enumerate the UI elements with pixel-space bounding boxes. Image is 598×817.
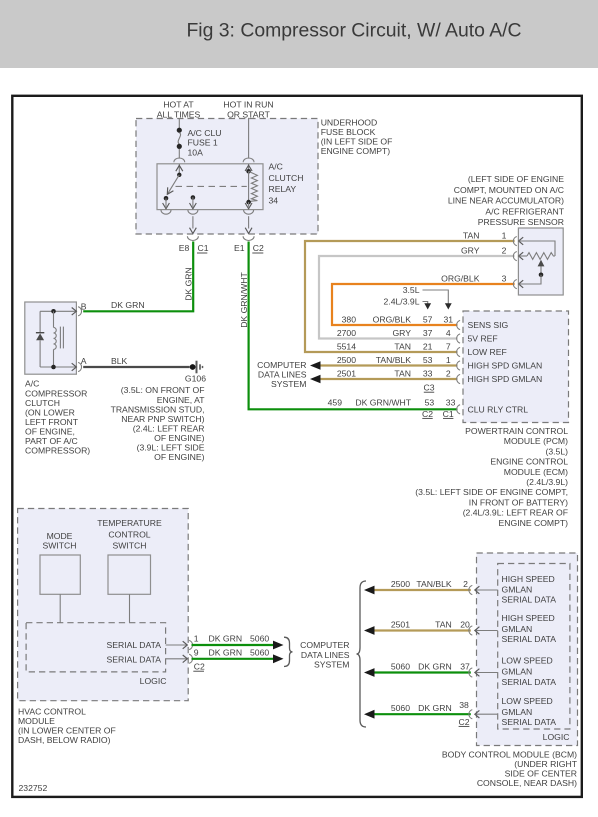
svg-text:DK GRN: DK GRN	[209, 647, 243, 657]
svg-text:2.4L/3.9L: 2.4L/3.9L	[384, 297, 420, 307]
svg-text:5060: 5060	[250, 647, 269, 657]
svg-text:SERIAL DATA: SERIAL DATA	[107, 655, 162, 665]
BCM pin 20 connector	[469, 626, 498, 635]
svg-text:LEFT FRONT: LEFT FRONT	[25, 417, 79, 427]
mode switch label	[42, 531, 76, 551]
BCM low speed gmlan label 1	[502, 656, 557, 688]
svg-text:3.5L: 3.5L	[403, 285, 420, 295]
svg-text:Fig 3: Compressor Circuit, W/: Fig 3: Compressor Circuit, W/ Auto A/C	[186, 20, 521, 42]
wire TAN 2501 to PCM HIGH SPD GMLAN	[310, 369, 458, 384]
mode switch box	[40, 555, 80, 594]
PCM pin 31 connector SENS SIG	[457, 320, 509, 330]
svg-text:(2.4L: LEFT REAR: (2.4L: LEFT REAR	[133, 424, 205, 434]
fuse F1 value label	[188, 128, 222, 157]
svg-text:A/C: A/C	[25, 379, 39, 389]
connector C3 label	[423, 383, 434, 393]
fuse block label	[321, 118, 393, 157]
svg-text:HIGH SPEED: HIGH SPEED	[502, 613, 555, 623]
svg-text:5060: 5060	[391, 661, 410, 671]
wire ORG/BLK sensor pin3 to PCM SENS SIG	[332, 284, 515, 325]
svg-text:FUSE 1: FUSE 1	[188, 138, 218, 148]
PCM pin 33 connector CLU RLY CTRL	[457, 404, 529, 414]
svg-text:DK GRN/WHT: DK GRN/WHT	[239, 271, 249, 327]
PCM module box	[463, 311, 569, 423]
svg-text:9: 9	[194, 647, 199, 657]
svg-text:IN FRONT OF BATTERY): IN FRONT OF BATTERY)	[469, 497, 568, 507]
svg-text:2501: 2501	[391, 619, 410, 629]
svg-text:HIGH SPEED: HIGH SPEED	[502, 574, 555, 584]
connector C2 C1 labels	[422, 409, 454, 419]
svg-text:PRESSURE SENSOR: PRESSURE SENSOR	[478, 217, 564, 227]
svg-text:ORG/BLK: ORG/BLK	[373, 315, 412, 325]
wire TAN/BLK 2500 to BCM pin 2	[364, 579, 471, 595]
svg-text:21: 21	[423, 342, 433, 352]
HVAC pin 9 connector	[166, 647, 199, 663]
HVAC caption	[18, 706, 116, 745]
svg-text:SWITCH: SWITCH	[42, 541, 76, 551]
svg-text:1: 1	[446, 355, 451, 365]
svg-text:5060: 5060	[250, 634, 269, 644]
svg-text:GMLAN: GMLAN	[502, 667, 533, 677]
wire row 2700 GRY labels	[337, 328, 451, 338]
svg-text:SERIAL DATA: SERIAL DATA	[502, 595, 557, 605]
svg-text:B: B	[81, 302, 87, 312]
svg-text:(LEFT SIDE OF ENGINE: (LEFT SIDE OF ENGINE	[468, 174, 564, 184]
svg-text:TAN: TAN	[435, 619, 452, 629]
svg-text:TAN: TAN	[463, 230, 480, 240]
PCM pin 4 connector 5V REF	[457, 334, 498, 344]
svg-text:SWITCH: SWITCH	[112, 541, 146, 551]
svg-text:ENGINE COMPT): ENGINE COMPT)	[499, 518, 569, 528]
wire DK GRN 5060 to BCM pin 37	[364, 661, 471, 677]
wire row 380 ORG/BLK labels	[342, 315, 454, 325]
relay K1 switch blade	[167, 175, 179, 195]
svg-text:53: 53	[423, 355, 433, 365]
BCM pin 37 connector	[469, 668, 498, 677]
svg-text:DK GRN/WHT: DK GRN/WHT	[355, 397, 411, 407]
svg-text:CONSOLE, NEAR DASH): CONSOLE, NEAR DASH)	[477, 778, 577, 788]
svg-text:CLUTCH: CLUTCH	[269, 173, 304, 183]
svg-text:A/C REFRIGERANT: A/C REFRIGERANT	[485, 206, 564, 216]
svg-text:HIGH SPD GMLAN: HIGH SPD GMLAN	[468, 374, 543, 384]
clutch internal top bus	[40, 309, 76, 314]
sensor pin 2 connector	[461, 245, 523, 260]
svg-text:SYSTEM: SYSTEM	[314, 659, 349, 669]
svg-text:HVAC CONTROL: HVAC CONTROL	[18, 706, 86, 716]
svg-text:DASH, BELOW RADIO): DASH, BELOW RADIO)	[18, 735, 111, 745]
svg-text:37: 37	[460, 661, 470, 671]
sensor internal supply line	[519, 241, 555, 256]
svg-text:C2: C2	[422, 409, 433, 419]
svg-text:POWERTRAIN CONTROL: POWERTRAIN CONTROL	[465, 426, 568, 436]
sensor pin 1 connector	[463, 230, 523, 245]
svg-text:SIDE OF CENTER: SIDE OF CENTER	[505, 769, 577, 779]
wire mode switch to logic	[59, 594, 61, 622]
wire TAN 2501 to BCM pin 20	[364, 619, 471, 635]
svg-text:34: 34	[269, 196, 279, 206]
wire hot in run feed	[248, 118, 250, 159]
svg-text:GMLAN: GMLAN	[502, 624, 533, 634]
svg-text:E8: E8	[179, 243, 190, 253]
relay K1 coil ground-side terminal	[244, 202, 254, 214]
sensor wiper arrow	[538, 260, 545, 275]
svg-text:TEMPERATURE: TEMPERATURE	[97, 518, 162, 528]
svg-text:CONTROL: CONTROL	[108, 530, 150, 540]
svg-text:COMPRESSOR: COMPRESSOR	[25, 388, 87, 398]
svg-text:(IN LOWER CENTER OF: (IN LOWER CENTER OF	[18, 725, 116, 735]
svg-text:LOGIC: LOGIC	[543, 732, 570, 742]
svg-text:GRY: GRY	[392, 328, 411, 338]
svg-text:(IN LEFT SIDE OF: (IN LEFT SIDE OF	[321, 137, 393, 147]
sensor pin 3 connector	[441, 273, 523, 288]
svg-text:COMPUTER: COMPUTER	[257, 360, 306, 370]
relay K1 A/C clutch relay box	[157, 164, 263, 210]
pressure sensor caption	[448, 174, 565, 227]
wire GRY sensor pin2 to PCM 5V REF	[319, 256, 515, 339]
clutch caption	[25, 379, 90, 456]
svg-text:HIGH SPD GMLAN: HIGH SPD GMLAN	[468, 361, 543, 371]
svg-text:380: 380	[342, 315, 357, 325]
A/C refrigerant pressure sensor box	[518, 228, 563, 295]
relay K1 normally-open contact	[161, 196, 171, 214]
BCM pin 2 connector	[469, 585, 498, 594]
svg-text:57: 57	[423, 315, 433, 325]
svg-text:COMPRESSOR): COMPRESSOR)	[25, 446, 90, 456]
svg-text:TAN: TAN	[394, 369, 411, 379]
svg-text:7: 7	[446, 342, 451, 352]
BCM module box	[477, 553, 578, 746]
svg-text:ALL TIMES: ALL TIMES	[157, 110, 201, 120]
svg-text:53: 53	[425, 397, 435, 407]
svg-text:MODULE (PCM): MODULE (PCM)	[504, 436, 568, 446]
svg-text:RELAY: RELAY	[269, 184, 297, 194]
svg-text:MODE: MODE	[47, 531, 73, 541]
svg-text:2700: 2700	[337, 328, 356, 338]
svg-text:LOW REF: LOW REF	[468, 347, 507, 357]
relay K1 coil	[245, 164, 257, 204]
PCM pin 2 connector HIGH SPD GMLAN	[457, 374, 543, 384]
svg-text:2500: 2500	[337, 355, 356, 365]
svg-text:38: 38	[459, 700, 469, 710]
wire DK GRN relay to clutch pin B	[83, 242, 193, 312]
svg-text:33: 33	[423, 369, 433, 379]
label 3.5L pin pointer	[403, 285, 452, 310]
svg-text:37: 37	[423, 328, 433, 338]
svg-text:SENS SIG: SENS SIG	[468, 320, 509, 330]
svg-text:(2.4L/3.9L): (2.4L/3.9L)	[526, 477, 568, 487]
relay K1 connector arch pin 85 top	[243, 158, 254, 162]
svg-text:DK GRN: DK GRN	[418, 703, 452, 713]
svg-text:COMPUTER: COMPUTER	[300, 640, 349, 650]
diode D1 clutch suppression	[36, 311, 44, 367]
svg-text:TRANSMISSION STUD,: TRANSMISSION STUD,	[111, 404, 205, 414]
relay K1 label 34	[269, 162, 304, 206]
svg-text:(ON LOWER: (ON LOWER	[25, 407, 75, 417]
svg-text:NEAR PNP SWITCH): NEAR PNP SWITCH)	[121, 414, 204, 424]
connector C2 label BCM	[458, 717, 469, 727]
svg-text:5V REF: 5V REF	[468, 334, 498, 344]
PCM pin 1 connector HIGH SPD GMLAN	[457, 361, 543, 371]
temperature control switch box	[108, 555, 151, 594]
svg-text:2501: 2501	[337, 369, 356, 379]
svg-text:LOGIC: LOGIC	[140, 676, 167, 686]
ground G106 caption	[111, 385, 206, 462]
svg-text:CLUTCH: CLUTCH	[25, 398, 60, 408]
svg-text:459: 459	[328, 397, 343, 407]
resistor R1 sensor element	[527, 253, 555, 260]
svg-text:(2.4L/3.9L: LEFT REAR OF: (2.4L/3.9L: LEFT REAR OF	[463, 508, 568, 518]
wire DK GRN/WHT relay to PCM CLU RLY CTRL	[249, 242, 458, 410]
svg-text:5514: 5514	[337, 342, 356, 352]
brace left of BCM wires	[357, 581, 367, 727]
HVAC control module box	[18, 509, 189, 701]
svg-text:COMPT, MOUNTED ON A/C: COMPT, MOUNTED ON A/C	[454, 185, 564, 195]
BCM pin 38 connector	[469, 710, 498, 719]
connector C2 label HVAC	[193, 662, 205, 672]
svg-text:DATA LINES: DATA LINES	[258, 370, 307, 380]
svg-text:2: 2	[446, 369, 451, 379]
computer data lines system label upper	[257, 360, 307, 389]
wire row 5514 TAN labels	[337, 342, 451, 352]
wire relay output to connector E8	[187, 216, 198, 240]
svg-text:MODULE: MODULE	[18, 716, 55, 726]
relay K1 coil link dashed	[176, 185, 247, 187]
svg-text:E1: E1	[234, 243, 245, 253]
svg-text:4: 4	[446, 328, 451, 338]
fuse F1 A/C CLU FUSE 1 10A	[177, 119, 182, 159]
relay K1 connector arch pin 86 top	[174, 158, 185, 162]
svg-text:31: 31	[444, 315, 454, 325]
ground G106	[185, 361, 206, 384]
svg-text:DK GRN: DK GRN	[418, 661, 452, 671]
svg-text:SERIAL DATA: SERIAL DATA	[502, 717, 557, 727]
svg-text:10A: 10A	[188, 147, 204, 157]
node sensor wiper junction	[539, 273, 544, 278]
svg-text:LOW SPEED: LOW SPEED	[502, 656, 553, 666]
svg-text:33: 33	[446, 397, 456, 407]
relay K1 output terminal 87	[188, 195, 198, 214]
svg-text:5060: 5060	[391, 703, 410, 713]
svg-text:A/C CLU: A/C CLU	[188, 128, 222, 138]
svg-text:SERIAL DATA: SERIAL DATA	[502, 634, 557, 644]
connector E1 C2	[234, 243, 264, 253]
relay K1 switch common terminal	[176, 164, 183, 177]
svg-text:GRY: GRY	[461, 245, 480, 255]
BCM logic box	[498, 564, 570, 730]
svg-text:ENGINE CONTROL: ENGINE CONTROL	[490, 457, 568, 467]
svg-text:20: 20	[460, 619, 470, 629]
wire relay coil to connector E1	[243, 216, 254, 240]
svg-text:DK GRN: DK GRN	[184, 267, 194, 301]
A/C compressor clutch box	[25, 302, 77, 374]
svg-text:2: 2	[463, 579, 468, 589]
svg-text:A/C: A/C	[269, 162, 283, 172]
BCM high speed gmlan label 2	[502, 613, 557, 644]
wire DK GRN 5060 pin9	[192, 647, 284, 663]
svg-text:SERIAL DATA: SERIAL DATA	[107, 640, 162, 650]
svg-text:BLK: BLK	[111, 356, 128, 366]
svg-text:232752: 232752	[19, 783, 48, 793]
svg-text:C2: C2	[194, 662, 205, 672]
svg-text:ENGINE COMPT): ENGINE COMPT)	[321, 146, 391, 156]
HVAC logic box	[26, 623, 166, 672]
svg-text:BODY CONTROL MODULE (BCM): BODY CONTROL MODULE (BCM)	[442, 749, 577, 759]
sensor internal signal line	[519, 275, 541, 284]
svg-text:OF ENGINE): OF ENGINE)	[154, 433, 204, 443]
clutch internal bottom bus	[40, 365, 76, 370]
svg-text:FUSE BLOCK: FUSE BLOCK	[321, 127, 376, 137]
svg-text:C2: C2	[253, 243, 264, 253]
temperature control switch label	[97, 518, 162, 551]
svg-text:3: 3	[502, 273, 507, 283]
svg-text:(UNDER RIGHT: (UNDER RIGHT	[514, 759, 577, 769]
svg-text:1: 1	[194, 634, 199, 644]
title bar	[0, 0, 598, 68]
svg-text:(3.5L: ON FRONT OF: (3.5L: ON FRONT OF	[121, 385, 205, 395]
wire TAN sensor pin1 to PCM LOW REF	[305, 241, 515, 352]
svg-text:HOT AT: HOT AT	[163, 100, 194, 110]
svg-text:(3.9L: LEFT SIDE: (3.9L: LEFT SIDE	[137, 443, 205, 453]
wire temp switch to logic	[129, 594, 131, 622]
underhood fuse block box	[136, 119, 318, 235]
svg-text:SERIAL DATA: SERIAL DATA	[502, 677, 557, 687]
BCM high speed gmlan label 1	[502, 574, 557, 605]
svg-text:OF ENGINE,: OF ENGINE,	[25, 427, 75, 437]
svg-text:UNDERHOOD: UNDERHOOD	[321, 118, 378, 128]
BCM caption	[442, 749, 578, 788]
inductor L1 clutch coil	[54, 311, 64, 367]
clutch pin A connector	[72, 356, 87, 371]
svg-text:OF ENGINE): OF ENGINE)	[154, 452, 204, 462]
svg-text:DK GRN: DK GRN	[111, 300, 145, 310]
svg-text:MODULE (ECM): MODULE (ECM)	[504, 467, 568, 477]
HVAC pin 1 connector	[166, 634, 199, 650]
svg-text:LOW SPEED: LOW SPEED	[502, 696, 553, 706]
svg-text:TAN/BLK: TAN/BLK	[376, 355, 412, 365]
wire row 459 DK GRN/WHT labels	[328, 397, 456, 407]
svg-text:(3.5L: LEFT SIDE OF ENGINE COM: (3.5L: LEFT SIDE OF ENGINE COMPT,	[415, 487, 568, 497]
node HOT IN RUN OR START	[223, 100, 273, 120]
wire DK GRN 5060 to BCM pin 38	[364, 700, 471, 718]
computer data lines system label lower	[300, 640, 350, 669]
brace right of HVAC wires	[284, 637, 293, 666]
svg-text:1: 1	[502, 230, 507, 240]
svg-text:PART OF A/C: PART OF A/C	[25, 436, 78, 446]
svg-text:ENGINE, AT: ENGINE, AT	[157, 395, 205, 405]
node HOT AT ALL TIMES	[157, 100, 201, 120]
sensor internal low ref line	[519, 255, 527, 257]
svg-text:2500: 2500	[391, 579, 410, 589]
svg-text:LINE NEAR ACCUMULATOR): LINE NEAR ACCUMULATOR)	[448, 196, 564, 206]
svg-text:TAN/BLK: TAN/BLK	[416, 579, 452, 589]
svg-text:C3: C3	[423, 383, 434, 393]
svg-text:G106: G106	[185, 374, 206, 384]
svg-text:(3.5L): (3.5L)	[545, 446, 568, 456]
svg-text:ORG/BLK: ORG/BLK	[441, 273, 480, 283]
connector E8 C1	[179, 243, 209, 253]
svg-text:TAN: TAN	[394, 342, 411, 352]
svg-text:GMLAN: GMLAN	[502, 585, 533, 595]
PCM pin 7 connector LOW REF	[457, 347, 507, 357]
PCM caption	[415, 426, 568, 528]
svg-text:HOT IN RUN: HOT IN RUN	[223, 100, 273, 110]
svg-text:DK GRN: DK GRN	[209, 634, 243, 644]
clutch pin B connector	[72, 302, 87, 316]
wire BLK clutch to ground	[83, 366, 189, 368]
svg-text:A: A	[81, 356, 87, 366]
svg-text:C1: C1	[443, 409, 454, 419]
svg-text:DATA LINES: DATA LINES	[301, 650, 350, 660]
wire DK GRN 5060 pin1	[192, 634, 284, 650]
label 2.4L/3.9L pin pointer	[384, 297, 432, 310]
svg-text:CLU RLY CTRL: CLU RLY CTRL	[468, 404, 529, 414]
BCM low speed gmlan label 2	[502, 696, 557, 727]
svg-text:C1: C1	[198, 243, 209, 253]
svg-text:GMLAN: GMLAN	[502, 707, 533, 717]
svg-text:2: 2	[502, 245, 507, 255]
svg-text:C2: C2	[458, 717, 469, 727]
svg-text:SYSTEM: SYSTEM	[271, 379, 306, 389]
wire TAN/BLK 2500 to PCM HIGH SPD GMLAN	[310, 355, 458, 370]
